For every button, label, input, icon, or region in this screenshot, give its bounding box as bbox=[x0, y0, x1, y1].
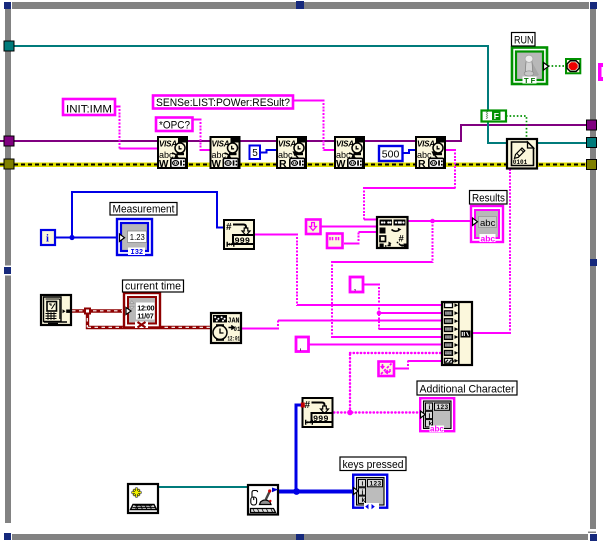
svg-text:j: j bbox=[361, 489, 364, 496]
svg-text:keys pressed: keys pressed bbox=[343, 459, 404, 471]
svg-text:INIT:IMM: INIT:IMM bbox=[66, 104, 112, 116]
svg-text:999: 999 bbox=[313, 414, 328, 424]
svg-text:,: , bbox=[299, 342, 302, 352]
svg-text:W: W bbox=[212, 159, 222, 170]
svg-text:R: R bbox=[279, 158, 287, 170]
svg-text:T F: T F bbox=[524, 76, 536, 85]
svg-text:12:01: 12:01 bbox=[228, 335, 241, 342]
svg-text:current time: current time bbox=[125, 281, 181, 293]
svg-text:,: , bbox=[354, 282, 357, 292]
svg-text:5: 5 bbox=[252, 148, 258, 159]
svg-text:999: 999 bbox=[235, 236, 250, 246]
svg-text:*OPC?: *OPC? bbox=[159, 120, 190, 132]
svg-text:R: R bbox=[418, 158, 426, 170]
svg-text:abc: abc bbox=[481, 234, 496, 244]
svg-text:abc: abc bbox=[430, 425, 444, 434]
svg-text:JAN: JAN bbox=[228, 318, 240, 326]
svg-text:#: # bbox=[399, 234, 405, 245]
svg-text:W: W bbox=[159, 159, 169, 170]
svg-text:Additional Character: Additional Character bbox=[420, 384, 515, 396]
svg-text:I32: I32 bbox=[131, 249, 144, 257]
svg-text:#: # bbox=[226, 222, 232, 233]
svg-text:i: i bbox=[362, 481, 364, 488]
svg-text:Measurement: Measurement bbox=[113, 204, 175, 216]
svg-text:1.23: 1.23 bbox=[130, 232, 145, 242]
svg-text:j: j bbox=[428, 412, 431, 419]
svg-text:#: # bbox=[305, 400, 311, 411]
svg-text:W: W bbox=[336, 159, 346, 170]
svg-text:F: F bbox=[494, 111, 499, 121]
svg-text:123: 123 bbox=[437, 404, 449, 411]
svg-text:01: 01 bbox=[234, 326, 241, 334]
svg-text:i: i bbox=[429, 404, 431, 411]
svg-text:SENSe:LIST:POWer:RESult?: SENSe:LIST:POWer:RESult? bbox=[156, 97, 290, 109]
svg-text:Results: Results bbox=[472, 193, 505, 205]
svg-text:500: 500 bbox=[382, 149, 400, 161]
svg-text:abc: abc bbox=[480, 218, 496, 229]
svg-text:123: 123 bbox=[370, 481, 382, 488]
svg-text:11/07: 11/07 bbox=[137, 312, 153, 321]
svg-text:i: i bbox=[46, 234, 49, 245]
svg-text:0101: 0101 bbox=[513, 159, 528, 167]
svg-text:RUN: RUN bbox=[514, 35, 534, 47]
